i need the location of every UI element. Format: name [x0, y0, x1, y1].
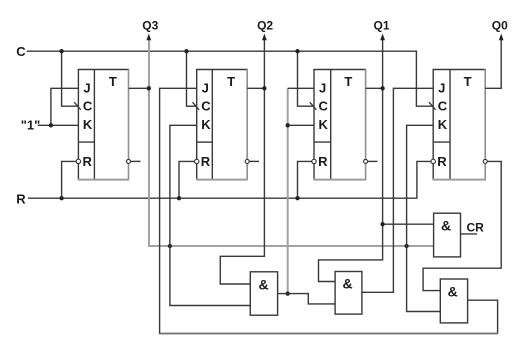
svg-text:&: & — [441, 218, 451, 234]
svg-text:T: T — [464, 74, 472, 89]
svg-text:J: J — [319, 81, 326, 96]
junction Q3/U1 Q — [147, 86, 151, 90]
AND gate G3 (CR) body — [434, 213, 461, 257]
reset bubble on R of U2 (Q2 stage) — [195, 159, 199, 163]
inverted output bubble of U1 (Q3 stage) — [127, 159, 131, 163]
svg-text:J: J — [83, 81, 90, 96]
svg-text:&: & — [448, 284, 458, 300]
wire U3 K input — [288, 124, 314, 126]
svg-text:R: R — [201, 154, 211, 169]
dynamic-input slash on C of U4 (Q0 stage) — [429, 102, 436, 110]
wire U2 R input drop — [179, 161, 197, 198]
wire Q3 vertical and horizontal bus to CR gate — [149, 40, 434, 246]
junction C/U3 — [295, 49, 299, 53]
wire U4 K input down to AND gate G4 input 2 — [407, 125, 441, 311]
svg-text:K: K — [201, 117, 211, 132]
wire G4 output right and down — [468, 300, 498, 333]
JK flip-flop U2 (Q2 stage) body — [196, 69, 248, 180]
wire G1 output to G2 input 2 — [278, 294, 336, 304]
wire U4 Q output up to Q0 arrow — [485, 40, 501, 89]
arrow Q3 output — [146, 34, 151, 41]
svg-text:R: R — [318, 154, 328, 169]
junction Q1 / CR gate input — [380, 222, 384, 226]
svg-text:R: R — [83, 154, 93, 169]
AND gate G4 body — [440, 279, 467, 323]
junction Q2/U2 Q — [262, 86, 266, 90]
wire U3 Q output stub — [366, 87, 383, 89]
wire C drop to U3 C input — [298, 51, 315, 106]
reset bubble on R of U3 (Q1 stage) — [312, 159, 316, 163]
svg-text:J: J — [438, 81, 445, 96]
wire U3 inverted output stub — [367, 160, 377, 162]
svg-text:K: K — [83, 117, 93, 132]
JK flip-flop U3 (Q1 stage) body — [313, 69, 366, 180]
wire "1" branch to U1 J input — [51, 88, 79, 125]
wire Q2 down to AND gate G1 input 1 — [220, 40, 264, 284]
svg-text:Q3: Q3 — [142, 19, 158, 33]
svg-text:C: C — [319, 99, 329, 114]
junction "1" J/K tie — [49, 123, 53, 127]
svg-text:C: C — [16, 44, 26, 59]
wire CR output stub — [461, 233, 478, 235]
AND gate G2 body — [335, 272, 362, 315]
svg-text:K: K — [319, 117, 329, 132]
wire U3 R input drop — [298, 161, 315, 198]
wire U2 Q output stub — [247, 87, 264, 89]
svg-text:CR: CR — [467, 220, 485, 234]
inverted output bubble of U4 (Q0 stage) — [483, 159, 487, 163]
junction Q3 bus / U4 K branch — [404, 244, 408, 248]
wire U2 inverted output stub — [249, 160, 259, 162]
junction G1 output / U3 feed — [286, 291, 290, 295]
AND gate G1 body — [250, 272, 277, 315]
wire U1 R input drop — [62, 161, 79, 198]
svg-text:K: K — [438, 117, 448, 132]
junction C/U2 — [184, 49, 188, 53]
arrow Q1 output — [380, 34, 385, 41]
junction Q1/U3 Q — [380, 86, 384, 90]
wire C drop to U1 C input — [62, 51, 79, 106]
svg-text:Q0: Q0 — [492, 19, 508, 33]
svg-text:R: R — [437, 154, 447, 169]
JK flip-flop U4 (Q0 stage) body — [433, 69, 486, 180]
svg-text:&: & — [343, 276, 353, 292]
svg-text:C: C — [201, 99, 211, 114]
wire U1 inverted output stub — [130, 160, 140, 162]
wire U1 Q output stub — [129, 87, 149, 89]
svg-text:&: & — [258, 276, 268, 292]
svg-text:R: R — [16, 192, 26, 207]
svg-text:C: C — [438, 99, 448, 114]
junction Q3 bus / U2 K branch — [168, 244, 172, 248]
svg-text:T: T — [344, 74, 352, 89]
dynamic-input slash on C of U3 (Q1 stage) — [310, 102, 317, 110]
wire U2 K input down to AND gate G1 input 2 — [170, 125, 250, 305]
svg-text:T: T — [109, 74, 117, 89]
wire R bus with rise into U4 R input — [28, 161, 433, 198]
junction R/U2 — [177, 196, 181, 200]
wire G4 output up to U2 J input — [160, 88, 197, 333]
wire Q1 branch to CR gate G3 input 1 — [383, 223, 434, 225]
svg-text:C: C — [83, 99, 93, 114]
wire vertical G1 output feed to U3 J/K — [287, 88, 289, 293]
dynamic-input slash on C of U1 (Q3 stage) — [74, 102, 81, 110]
junction U3 J/K tie — [286, 123, 290, 127]
wire G2 output up to U4 J input — [362, 88, 433, 292]
dynamic-input slash on C of U2 (Q2 stage) — [193, 102, 200, 110]
svg-text:"1": "1" — [21, 117, 41, 132]
wire G4 output bottom bus — [159, 333, 498, 335]
wire "1" to U1 K input — [38, 124, 79, 126]
junction R/U3 — [295, 196, 299, 200]
reset bubble on R of U1 (Q3 stage) — [76, 159, 80, 163]
arrow Q0 output — [499, 34, 504, 41]
inverted output bubble of U3 (Q1 stage) — [364, 159, 368, 163]
wire Q1 down to AND gate G2 input 1 — [319, 40, 383, 282]
reset bubble on R of U4 (Q0 stage) — [431, 159, 435, 163]
wire U3 J input — [288, 87, 314, 89]
arrow Q2 output — [262, 34, 267, 41]
wire U4 inverted output to AND gate G4 input 1 — [423, 161, 501, 290]
junction R/U1 — [59, 196, 63, 200]
wire C bus with drop into U4 C input — [27, 51, 434, 106]
svg-text:J: J — [202, 81, 209, 96]
svg-text:Q2: Q2 — [257, 19, 273, 33]
JK flip-flop U1 (Q3 stage) body — [78, 69, 130, 180]
wire C drop to U2 C input — [187, 51, 197, 106]
svg-text:T: T — [227, 74, 235, 89]
junction C/U1 — [59, 49, 63, 53]
inverted output bubble of U2 (Q2 stage) — [245, 159, 249, 163]
svg-text:Q1: Q1 — [373, 19, 389, 33]
